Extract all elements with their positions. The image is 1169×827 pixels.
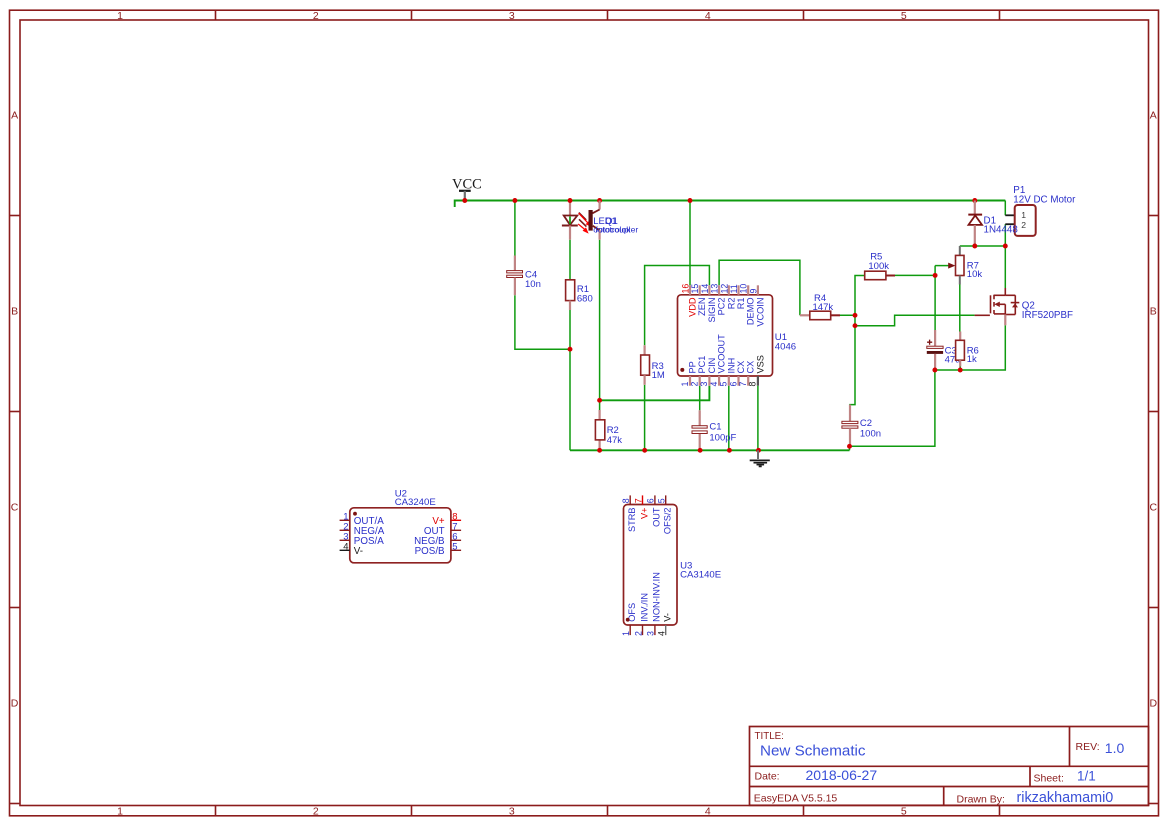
svg-text:B: B: [1150, 305, 1157, 317]
connector P1: [1005, 185, 1076, 236]
svg-text:1N4448: 1N4448: [984, 225, 1019, 236]
svg-text:CIN: CIN: [707, 358, 717, 374]
svg-text:VDD: VDD: [688, 297, 698, 317]
capacitor C3: [927, 330, 961, 370]
svg-text:680: 680: [577, 294, 593, 305]
svg-text:9: 9: [748, 289, 758, 294]
transistor Q2 IRF520PBF: [975, 288, 1073, 325]
svg-text:14: 14: [700, 284, 710, 294]
junction: C4: [512, 198, 517, 203]
svg-text:1: 1: [1021, 210, 1026, 220]
wire: node down to Q2 drain: [1004, 246, 1006, 288]
svg-text:7: 7: [738, 382, 748, 387]
wire: rail corner down to P1 pin1: [1004, 201, 1006, 216]
op-amp U1 4046: [678, 284, 797, 387]
svg-text:2: 2: [313, 805, 319, 817]
junction: Q1 collector: [597, 198, 602, 203]
potentiometer R7: [948, 246, 982, 285]
wire: C2 bottom segment to C3 bottom: [850, 370, 935, 450]
svg-text:4: 4: [705, 805, 711, 817]
svg-text:INH: INH: [726, 358, 736, 374]
svg-text:10: 10: [739, 284, 749, 294]
wire: P1 pin2 down to node: [1004, 224, 1006, 246]
svg-text:2: 2: [1021, 220, 1026, 230]
svg-text:Date:: Date:: [755, 771, 780, 783]
svg-text:V-: V-: [354, 546, 363, 557]
wire: R3 to U1 pin14 SIGIN: [645, 266, 710, 346]
junction: U1 VDD: [688, 198, 693, 203]
title block: [750, 727, 1149, 806]
svg-text:4: 4: [705, 10, 711, 22]
svg-text:7: 7: [633, 498, 643, 503]
svg-text:5: 5: [901, 805, 907, 817]
svg-text:REV:: REV:: [1076, 741, 1100, 753]
svg-text:147k: 147k: [813, 302, 834, 313]
svg-text:R1: R1: [736, 298, 746, 310]
svg-text:1k: 1k: [967, 354, 977, 365]
junction: C2 bottom: [847, 444, 852, 449]
svg-text:VCOOUT: VCOOUT: [717, 334, 727, 374]
svg-text:2: 2: [633, 631, 643, 636]
wire: VDD rail drop to U1 pin16: [689, 201, 691, 286]
svg-text:100pF: 100pF: [709, 433, 736, 444]
svg-text:100n: 100n: [860, 429, 881, 440]
wire: R2 top to U1 pin3 CIN: [600, 386, 710, 401]
capacitor C1: [692, 410, 737, 443]
svg-text:47k: 47k: [607, 435, 623, 446]
svg-text:ZEN: ZEN: [697, 298, 707, 316]
svg-text:3: 3: [646, 631, 656, 636]
svg-text:EasyEDA V5.5.15: EasyEDA V5.5.15: [754, 792, 838, 804]
wire: phototransistor/R2 column: [599, 240, 601, 410]
svg-text:11: 11: [729, 284, 739, 293]
diode D1: [968, 201, 982, 247]
wire: source node horizontal: [935, 325, 1005, 370]
svg-text:8: 8: [748, 382, 758, 387]
wire: bottom ground rail: [570, 449, 850, 451]
svg-text:6: 6: [728, 382, 738, 387]
svg-text:2: 2: [313, 10, 319, 22]
wire: U1 pin2 PC1 to C1: [699, 386, 701, 411]
svg-text:IRF520PBF: IRF520PBF: [1022, 310, 1073, 321]
svg-text:Sheet:: Sheet:: [1034, 772, 1064, 784]
junction: C3 bottom: [932, 368, 937, 373]
wire: U1 pin13 PC2 to R4: [719, 260, 800, 315]
svg-text:4: 4: [343, 542, 348, 553]
svg-text:1/1: 1/1: [1077, 769, 1096, 784]
svg-text:SIGIN: SIGIN: [707, 298, 717, 323]
op-amp U3 CA3140E: [621, 495, 721, 636]
svg-text:3: 3: [509, 805, 515, 817]
svg-text:4: 4: [657, 631, 667, 636]
svg-text:VSS: VSS: [755, 355, 765, 373]
svg-text:1M: 1M: [652, 370, 665, 381]
svg-text:5: 5: [901, 10, 907, 22]
svg-text:D: D: [11, 697, 19, 709]
svg-text:1: 1: [680, 382, 690, 387]
wire: R3 bottom to rail: [644, 385, 646, 451]
svg-text:V-: V-: [663, 613, 673, 622]
svg-text:4: 4: [709, 382, 719, 387]
LED LED1: [562, 213, 638, 240]
svg-text:VCOIN: VCOIN: [755, 298, 765, 327]
junction: R3 bottom: [642, 448, 647, 453]
svg-text:12V DC Motor: 12V DC Motor: [1013, 195, 1076, 206]
svg-text:A: A: [1150, 110, 1157, 122]
junction: D1 anode node: [972, 244, 977, 249]
resistor R6: [956, 332, 979, 367]
junction: R6 bottom: [958, 368, 963, 373]
wire: U1 pin8 VSS to rail/ground: [757, 386, 759, 451]
ground: [750, 450, 770, 466]
svg-text:INV./IN: INV./IN: [639, 593, 649, 622]
resistor R2: [595, 410, 622, 446]
wire: wiper arrow line to R7: [935, 265, 949, 267]
wire: R6 bottom to source node: [959, 367, 961, 371]
svg-text:5: 5: [452, 542, 457, 553]
svg-text:NON-INV.IN: NON-INV.IN: [652, 572, 662, 622]
junction: VSS rail: [756, 448, 761, 453]
junction: P1 pin2 node: [1003, 244, 1008, 249]
svg-text:CA3140E: CA3140E: [680, 570, 721, 581]
svg-text:STRB: STRB: [627, 508, 637, 533]
junction: D1 cathode: [972, 198, 977, 203]
svg-text:100k: 100k: [868, 261, 889, 272]
svg-text:fototrolok: fototrolok: [595, 225, 631, 235]
svg-text:PP: PP: [688, 361, 698, 373]
svg-text:15: 15: [690, 284, 700, 294]
svg-text:C: C: [11, 501, 19, 513]
wire: wiper node vertical (R5/C3): [934, 266, 936, 330]
svg-text:10n: 10n: [525, 279, 541, 290]
svg-text:DEMO: DEMO: [746, 298, 756, 326]
wire: node step to Q2 gate: [855, 315, 975, 325]
wire: R5 right to wiper node: [894, 274, 935, 276]
svg-text:2018-06-27: 2018-06-27: [806, 767, 878, 783]
wire: node down to C2: [850, 326, 855, 422]
wire: U1 pin5 INH to rail: [728, 386, 730, 451]
svg-text:16: 16: [681, 284, 691, 294]
junction: gate node: [853, 323, 858, 328]
power flag VCC: [452, 177, 482, 201]
svg-text:5: 5: [719, 382, 729, 387]
svg-text:4046: 4046: [775, 342, 796, 353]
wire: C4 branch down and over to R1 column: [514, 201, 516, 256]
junction: LED column joins C4: [568, 347, 573, 352]
svg-text:8: 8: [621, 498, 631, 503]
svg-text:Drawn By:: Drawn By:: [957, 793, 1005, 805]
junction: INH rail: [727, 448, 732, 453]
junction: R2 top / CIN: [597, 398, 602, 403]
junction: C1 bottom: [698, 448, 703, 453]
svg-text:2: 2: [690, 382, 700, 387]
resistor R3: [641, 345, 665, 385]
svg-text:D: D: [1150, 697, 1158, 709]
svg-text:PC2: PC2: [717, 298, 727, 316]
svg-text:C1: C1: [709, 421, 721, 432]
wire: R4 right to node: [838, 314, 855, 316]
wire: LED/R1 column: [569, 201, 571, 216]
svg-text:1: 1: [117, 805, 123, 817]
svg-text:R2: R2: [726, 298, 736, 310]
svg-text:1: 1: [621, 631, 631, 636]
wire: node to R5 left: [855, 276, 865, 316]
svg-text:PC1: PC1: [697, 356, 707, 374]
svg-text:CX: CX: [746, 361, 756, 374]
svg-text:B: B: [11, 305, 18, 317]
resistor R4: [800, 293, 840, 320]
wire: R7 column: [959, 285, 961, 332]
wire: VCC top rail: [455, 201, 1006, 208]
svg-text:TITLE:: TITLE:: [755, 731, 784, 742]
svg-text:POS/B: POS/B: [415, 546, 445, 557]
capacitor C4: [507, 256, 541, 296]
wire: D1/P1 node horizontal: [960, 245, 1006, 247]
svg-text:13: 13: [710, 284, 720, 294]
resistor R1: [566, 280, 593, 310]
svg-text:10k: 10k: [967, 269, 983, 280]
op-amp U2 CA3240E: [340, 488, 462, 562]
capacitor C2: [842, 405, 881, 447]
svg-text:OUT: OUT: [652, 507, 662, 527]
svg-text:3: 3: [699, 382, 709, 387]
svg-text:CA3240E: CA3240E: [395, 497, 436, 508]
svg-text:12: 12: [719, 284, 729, 294]
svg-text:1: 1: [117, 10, 123, 22]
svg-text:5: 5: [657, 498, 667, 503]
junction: R4/R5 node: [853, 313, 858, 318]
phototransistor Q1: [589, 201, 632, 240]
svg-text:A: A: [11, 110, 18, 122]
svg-text:C: C: [1150, 501, 1158, 513]
junction: VCC: [462, 198, 467, 203]
junction: R2 bottom: [597, 448, 602, 453]
svg-text:New Schematic: New Schematic: [760, 742, 866, 759]
svg-text:6: 6: [646, 498, 656, 503]
svg-text:CX: CX: [736, 361, 746, 374]
junction: R5/wiper node: [933, 273, 938, 278]
resistor R5: [865, 251, 895, 279]
svg-text:1.0: 1.0: [1105, 740, 1125, 756]
svg-text:3: 3: [509, 10, 515, 22]
svg-text:V+: V+: [639, 508, 649, 520]
junction: LED1: [568, 198, 573, 203]
svg-text:OFS/2: OFS/2: [663, 508, 673, 535]
svg-text:rikzakhamami0: rikzakhamami0: [1017, 790, 1114, 806]
